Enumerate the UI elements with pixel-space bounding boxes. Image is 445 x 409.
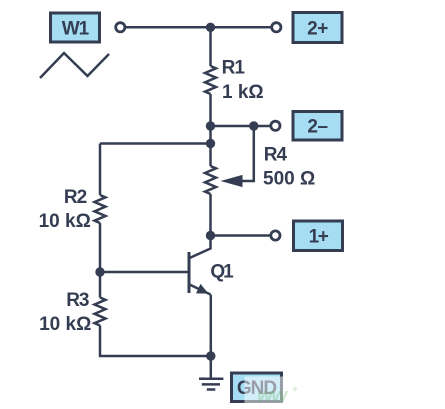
terminal circle 1+	[271, 231, 280, 240]
svg-text:R1: R1	[222, 57, 246, 78]
node junction dot R1 bottom	[206, 121, 215, 130]
resistor R1	[205, 66, 216, 94]
wiper arrowhead R4	[221, 175, 243, 187]
svg-text:10 kΩ: 10 kΩ	[39, 211, 91, 232]
watermark speck	[293, 387, 297, 391]
node junction dot collector	[206, 231, 215, 240]
node junction dot top (W1/R1/2+)	[206, 23, 215, 32]
wire R3 bottom to bottom rail corner	[100, 326, 211, 357]
resistor R2	[95, 195, 106, 223]
terminal circle 2-	[271, 121, 280, 130]
node junction dot left-branch tap	[206, 139, 215, 148]
wire node to left branch corner	[100, 142, 211, 145]
transistor Q1 emitter arrowhead	[196, 284, 209, 294]
wire top horizontal from W1 terminal to 2+ terminal	[126, 26, 271, 29]
wire R1 bottom to node	[209, 94, 212, 126]
waveform symbol triangle wave	[40, 53, 109, 78]
terminal box 1+	[294, 221, 343, 251]
svg-text:1+: 1+	[309, 227, 329, 248]
wire ground stem	[210, 356, 213, 378]
svg-text:2–: 2–	[307, 117, 327, 138]
svg-text:W1: W1	[62, 18, 90, 39]
resistor R3	[95, 298, 106, 326]
ground	[199, 377, 223, 380]
wire node to 1+ terminal	[211, 234, 270, 237]
W1 source box	[51, 13, 100, 42]
svg-text:2+: 2+	[307, 18, 328, 39]
terminal box 2-	[293, 112, 342, 141]
node junction dot ground rail	[206, 351, 215, 360]
wire wiper vertical+horizontal	[240, 126, 254, 181]
svg-text:R3: R3	[66, 290, 89, 311]
svg-text:500 Ω: 500 Ω	[263, 169, 315, 190]
wire R2 bottom to base node	[99, 223, 102, 298]
svg-text:10 kΩ: 10 kΩ	[39, 314, 91, 335]
wire base from divider	[100, 271, 188, 274]
GND box	[232, 373, 282, 402]
svg-text:R4: R4	[264, 144, 288, 165]
watermark overlay	[245, 377, 445, 405]
wire pot bottom to collector node	[209, 194, 212, 236]
transistor Q1 collector lead	[190, 236, 211, 259]
svg-text:1 kΩ: 1 kΩ	[222, 82, 264, 103]
terminal circle 2+	[272, 23, 281, 32]
transistor Q1 emitter lead	[190, 285, 211, 295]
node junction dot wiper tap	[249, 121, 258, 130]
potentiometer R4 body	[205, 166, 216, 194]
wire emitter vertical down	[210, 295, 213, 357]
terminal circle W1	[116, 23, 125, 32]
wire node down to potentiometer top	[209, 126, 212, 166]
svg-text:R2: R2	[64, 187, 87, 208]
svg-text:Q1: Q1	[210, 261, 234, 282]
terminal box 2+	[293, 13, 342, 43]
svg-text:ww: ww	[257, 385, 289, 407]
wire R1 vertical (node to resistor top)	[209, 27, 212, 66]
node junction dot base divider	[95, 267, 104, 276]
wire left branch vertical upper (corner to R2)	[99, 144, 102, 196]
wire node to 2- terminal	[211, 125, 270, 128]
transistor Q1 base bar	[188, 252, 191, 293]
